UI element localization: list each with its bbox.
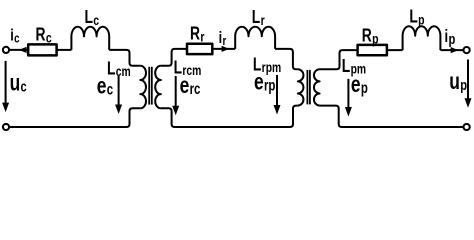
arrow e_rc (shaft) [175, 76, 177, 107]
svg-text:L: L [342, 56, 350, 76]
svg-text:L: L [107, 59, 115, 79]
svg-text:u: u [10, 70, 21, 96]
wire R_p to L_p [387, 49, 403, 51]
svg-text:i: i [219, 28, 223, 47]
arrowhead u_p [465, 98, 472, 108]
transformer T1 core line 1 [148, 67, 150, 105]
label R_r [190, 24, 205, 45]
label e_rc [180, 73, 201, 99]
svg-text:e: e [180, 73, 190, 99]
svg-text:rc: rc [190, 80, 201, 97]
svg-text:L: L [252, 7, 260, 27]
label i_p [445, 27, 456, 47]
svg-text:c: c [107, 81, 114, 98]
label e_rp [254, 69, 275, 95]
wire T2 left winding bottom to rail to T1 right winding bottom [161, 106, 298, 127]
label u_c [10, 70, 27, 96]
wire R_r to L_r (with i_r arrow) [212, 48, 235, 50]
label L_p [409, 7, 425, 28]
wire L_p to terminal top-right (with i_p arrow) [440, 49, 463, 51]
label L_rpm [253, 54, 281, 75]
svg-text:r: r [261, 13, 265, 29]
arrow u_p (shaft) [467, 60, 469, 100]
svg-text:c: c [46, 30, 52, 46]
transformer T2 core line 1 [306, 70, 308, 105]
label u_p [449, 68, 467, 94]
arrow e_rp (shaft) [276, 75, 278, 106]
label R_c [36, 25, 52, 46]
label e_p [351, 72, 368, 98]
svg-text:R: R [190, 24, 200, 44]
terminal bottom-right [464, 124, 470, 130]
svg-text:r: r [222, 35, 226, 49]
svg-text:p: p [361, 79, 368, 96]
svg-text:e: e [254, 69, 264, 95]
svg-text:e: e [97, 73, 107, 99]
arrow u_c (shaft) [5, 61, 7, 104]
arrowhead i_p (points right) [451, 47, 459, 53]
terminal bottom-left [3, 124, 9, 130]
arrowhead e_p [345, 107, 352, 117]
svg-text:p: p [460, 76, 467, 93]
terminal top-right [464, 47, 470, 53]
svg-text:c: c [21, 78, 27, 95]
svg-text:rpm: rpm [262, 59, 282, 75]
inductor L_c [71, 27, 109, 50]
svg-text:L: L [409, 7, 417, 27]
wire T2 right winding top to R_p [320, 50, 358, 69]
transformer T2 right winding (L_pm) [314, 69, 320, 105]
wire L_r to T2 left winding [275, 49, 298, 69]
svg-text:L: L [85, 7, 93, 27]
arrowhead e_rc [172, 106, 179, 116]
wire T2 right winding bottom to bottom rail right [320, 106, 464, 127]
svg-text:p: p [448, 30, 455, 47]
svg-text:p: p [372, 31, 379, 47]
transformer T1 core line 2 [151, 67, 153, 105]
label L_pm [342, 56, 366, 77]
resistor R_r [187, 44, 212, 54]
svg-text:i: i [445, 27, 449, 46]
svg-text:c: c [93, 13, 99, 29]
svg-text:R: R [362, 25, 372, 45]
arrowhead i_c (points left) [19, 47, 27, 53]
inductor L_r [235, 27, 275, 49]
arrow e_c (shaft) [118, 76, 120, 106]
arrowhead u_c [2, 103, 9, 113]
label e_c [97, 73, 114, 99]
transformer T2 core line 2 [309, 70, 311, 105]
svg-text:cm: cm [116, 64, 131, 80]
resistor R_c [28, 44, 56, 55]
terminal top-left [3, 47, 9, 53]
label i_r [219, 28, 227, 48]
arrow e_p (shaft) [347, 79, 349, 108]
svg-text:u: u [449, 68, 460, 94]
wire T1 left winding bottom to bottom rail [9, 108, 140, 127]
svg-text:rp: rp [264, 77, 275, 94]
label R_p [362, 25, 379, 46]
svg-text:e: e [351, 72, 361, 98]
wire L_c to transformer T1 left winding [109, 50, 140, 66]
svg-text:p: p [418, 12, 425, 28]
arrowhead e_rp [274, 105, 281, 115]
transformer T1 right winding (L_rcm) [155, 66, 161, 109]
svg-text:R: R [36, 25, 46, 45]
svg-text:i: i [10, 26, 14, 45]
wire R_c to L_c [57, 49, 72, 51]
arrowhead e_c [115, 105, 122, 115]
svg-text:c: c [14, 32, 20, 46]
transformer T1 left winding (L_cm) [140, 66, 146, 109]
svg-text:r: r [200, 29, 204, 45]
label L_cm [107, 59, 131, 80]
wire T1 right winding top to R_r [161, 49, 187, 66]
wire terminal to R_c [9, 49, 28, 51]
label i_c [10, 26, 20, 46]
arrowhead i_r (points right) [222, 46, 230, 52]
inductor L_p [403, 26, 441, 50]
label L_rcm [174, 58, 202, 79]
label L_r [252, 7, 265, 28]
label L_c [85, 7, 100, 28]
transformer T2 left winding (L_rpm) [298, 69, 304, 105]
resistor R_p [358, 45, 387, 55]
